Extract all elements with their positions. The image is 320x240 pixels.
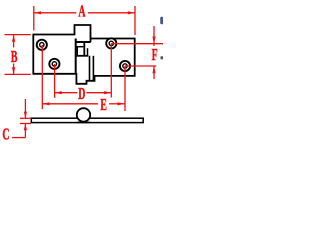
dimension B line lower segment with down arrow bbox=[12, 64, 15, 75]
dimension A extension line right bbox=[134, 6, 136, 35]
screw hole 3 inner bbox=[109, 41, 113, 45]
screw hole 1 inner bbox=[40, 43, 44, 47]
dimension F upper leader with down arrow bbox=[152, 26, 155, 46]
dimension D line left segment with arrow bbox=[55, 91, 78, 94]
screw hole 2 inner bbox=[52, 62, 56, 66]
dimension A line right segment with arrow bbox=[88, 11, 135, 14]
dimension A line left segment with arrow bbox=[34, 11, 77, 14]
dimension A extension line left bbox=[33, 6, 35, 31]
knuckle inner vertical 1 bbox=[76, 47, 78, 56]
dimension C lower leader with up arrow and elbow to label bbox=[12, 124, 27, 138]
side view leaf bar bbox=[31, 118, 143, 122]
screw hole 1 outer bbox=[37, 40, 47, 50]
dimension D line right segment with arrow bbox=[86, 91, 111, 94]
svg-text:F: F bbox=[152, 47, 158, 65]
dimension C upper leader with down arrow bbox=[24, 99, 27, 118]
screw hole 4 inner bbox=[123, 64, 127, 68]
hinge top view outline bbox=[33, 25, 134, 84]
knuckle horizontal ledge 1 bbox=[76, 46, 84, 48]
side view barrel circle bbox=[77, 108, 90, 121]
screw hole 4 outer bbox=[120, 61, 130, 71]
screw hole 3 outer bbox=[106, 38, 116, 48]
grey icon fragment right edge middle bbox=[161, 56, 164, 59]
knuckle horizontal ledge 2 bbox=[76, 55, 89, 57]
hole 3 extension line right (F top) bbox=[111, 43, 163, 45]
side view bar bottom edge through barrel bbox=[77, 121, 91, 123]
svg-text:B: B bbox=[11, 49, 18, 67]
screw hole 2 outer bbox=[49, 59, 59, 69]
knuckle inner vertical 3 bbox=[87, 48, 89, 56]
knuckle seam vertical left bbox=[75, 39, 77, 74]
knuckle horizontal seam bbox=[76, 41, 91, 43]
svg-text:A: A bbox=[78, 3, 85, 21]
svg-text:C: C bbox=[2, 126, 9, 144]
dimension E line right segment with arrow bbox=[109, 102, 125, 105]
svg-text:E: E bbox=[100, 96, 107, 114]
hole 1 extension line down (E left tick) bbox=[41, 45, 43, 109]
hole 4 extension line right (F bottom) bbox=[125, 65, 156, 67]
knuckle right finger edge right bbox=[92, 56, 94, 81]
dimension C extension line bottom bbox=[20, 123, 31, 125]
hole 4 extension line down (E right tick) bbox=[124, 66, 126, 111]
knuckle inner vertical 2 bbox=[83, 42, 85, 56]
blue icon fragment right edge top bbox=[160, 17, 163, 24]
svg-text:D: D bbox=[78, 85, 85, 103]
knuckle right finger edge left bbox=[89, 56, 91, 81]
hole 2 extension line down (D left tick) bbox=[54, 64, 56, 98]
dimension C extension line top bbox=[20, 117, 31, 119]
dimension B line upper segment with up arrow bbox=[12, 35, 15, 48]
dimension E line left segment with arrow bbox=[42, 102, 98, 105]
dimension B extension line top bbox=[5, 34, 31, 36]
knuckle tab right edge extension bbox=[90, 39, 92, 43]
dimension F lower leader with up arrow bbox=[152, 66, 155, 79]
hole 3 extension line down (D right tick) bbox=[110, 43, 112, 97]
dimension B extension line bottom bbox=[5, 73, 31, 75]
